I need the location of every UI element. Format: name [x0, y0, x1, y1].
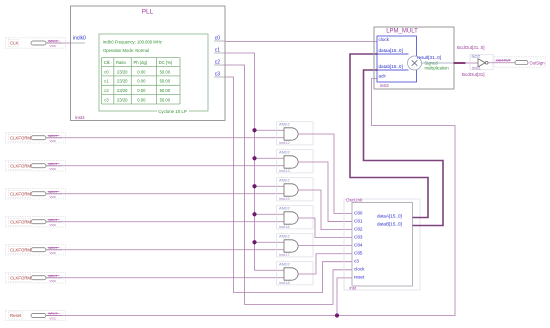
svg-text:VCC: VCC — [50, 139, 57, 143]
svg-text:23/20: 23/20 — [117, 88, 128, 93]
svg-text:c1: c1 — [215, 48, 221, 54]
svg-text:datab[15..0]: datab[15..0] — [379, 64, 403, 69]
wire CLKFORM6 to AND gate inst18 input B — [46, 277, 284, 279]
svg-text:inclk0: inclk0 — [73, 36, 86, 42]
svg-text:CLKFORM1: CLKFORM1 — [10, 135, 34, 140]
svg-text:LPM_MULT: LPM_MULT — [386, 29, 418, 35]
junction dot on net c1 — [252, 240, 256, 244]
wire net c2: PLL c2 to OscUnit clock — [225, 65, 352, 305]
label inst2 — [380, 83, 390, 88]
svg-text:CLKFORM6: CLKFORM6 — [10, 275, 34, 280]
LPM_MULT internal line circle to edge — [422, 62, 455, 64]
wire inst13 out to OscUnit C81 — [298, 162, 352, 222]
wire net Reset: pin to OscUnit reset and LPM_MULT aclr — [46, 79, 455, 316]
svg-text:VCC: VCC — [50, 223, 57, 227]
wire BcdOut[31] tap to NOT input — [465, 62, 478, 64]
svg-text:0.00: 0.00 — [137, 79, 146, 84]
svg-text:23/20: 23/20 — [117, 79, 128, 84]
svg-text:AND2: AND2 — [279, 262, 290, 267]
wire inst18 out to OscUnit C85 — [298, 254, 352, 274]
AND2 gate inst15 — [277, 178, 314, 201]
svg-text:c1: c1 — [104, 79, 109, 84]
input pin CLKFORM5 — [6, 245, 66, 255]
wire c1 branch to AND gate 5 input A — [255, 241, 285, 243]
junction dot on net c1 — [252, 156, 256, 160]
NOT gate inst1 — [470, 54, 493, 71]
input pin CLKFORM3 — [6, 189, 66, 199]
svg-text:c3: c3 — [354, 259, 359, 264]
svg-text:AND2: AND2 — [279, 206, 290, 211]
junction dot on net c1 — [252, 128, 256, 132]
svg-text:0.00: 0.00 — [137, 97, 146, 102]
svg-text:AND2: AND2 — [279, 178, 290, 183]
input pin CLKFORM6 — [6, 273, 66, 283]
input pin Reset — [6, 310, 66, 320]
input pin CLKFORM1 — [6, 133, 66, 143]
PLL parameter table (green) — [99, 34, 208, 114]
wire CLK to PLL inclk0 — [46, 42, 71, 44]
svg-text:inst: inst — [350, 286, 357, 291]
input pin CLKFORM2 — [6, 161, 66, 171]
input pin CLK — [6, 38, 66, 48]
svg-text:inst16: inst16 — [279, 224, 290, 229]
LPM_MULT multiplier circle — [408, 56, 422, 70]
svg-text:CLKFORM3: CLKFORM3 — [10, 191, 34, 196]
svg-text:dataA[15..0]: dataA[15..0] — [377, 214, 402, 219]
svg-text:VCC: VCC — [50, 167, 57, 171]
AND2 gate inst18 — [277, 262, 314, 285]
svg-text:50.00: 50.00 — [160, 97, 171, 102]
junction dot on net c1 — [252, 212, 256, 216]
svg-text:C83: C83 — [354, 234, 363, 239]
svg-text:23/20: 23/20 — [117, 97, 128, 102]
AND2 gate inst13 — [277, 150, 314, 173]
svg-text:PLL: PLL — [142, 9, 154, 16]
svg-text:C80: C80 — [354, 210, 363, 215]
svg-text:CLKFORM5: CLKFORM5 — [10, 247, 34, 252]
svg-text:inst12: inst12 — [279, 140, 290, 145]
svg-text:Ratio: Ratio — [116, 60, 126, 65]
svg-text:23/20: 23/20 — [117, 69, 128, 74]
wire CLKFORM3 to AND gate inst15 input B — [46, 193, 284, 195]
OscUnit block inst — [344, 198, 420, 291]
bus dataA[15..0]: OscUnit to LPM_MULT dataa — [350, 54, 428, 218]
svg-text:VCC: VCC — [50, 251, 57, 255]
wire inst15 out to OscUnit C82 — [298, 190, 352, 230]
svg-text:inst17: inst17 — [279, 252, 290, 257]
AND2 gate inst17 — [277, 234, 314, 257]
svg-text:aclr: aclr — [379, 74, 387, 79]
svg-text:50.00: 50.00 — [160, 88, 171, 93]
svg-text:CLK: CLK — [10, 41, 18, 46]
svg-text:C85: C85 — [354, 251, 363, 256]
svg-text:reset: reset — [354, 275, 365, 280]
net label BcdOut[31..0] — [457, 45, 485, 50]
svg-text:dataa[15..0]: dataa[15..0] — [379, 48, 403, 53]
svg-text:inst4: inst4 — [75, 115, 85, 120]
AND2 gate inst16 — [277, 206, 314, 229]
wire c1 branch to AND gate 4 input A — [255, 213, 285, 215]
svg-text:0.00: 0.00 — [137, 88, 146, 93]
wire NOT output to OutSign pin — [489, 62, 515, 64]
svg-text:DC (%): DC (%) — [159, 60, 173, 65]
svg-text:inst2: inst2 — [380, 83, 390, 88]
wire CLKFORM2 to AND gate inst13 input B — [46, 165, 284, 167]
wire inst16 out to OscUnit C83 — [298, 218, 352, 238]
PLL block U_PLL outline — [71, 6, 226, 121]
svg-text:AND2: AND2 — [279, 234, 290, 239]
svg-text:multiplication: multiplication — [425, 65, 450, 70]
svg-text:c3: c3 — [215, 72, 221, 78]
wire net c1: PLL c1 vertical feed to AND gates — [225, 53, 284, 270]
svg-text:Clk: Clk — [104, 60, 111, 65]
svg-text:inst13: inst13 — [279, 168, 290, 173]
junction dot on net c1 — [252, 184, 256, 188]
svg-text:c0: c0 — [215, 36, 221, 42]
wire CLKFORM1 to AND gate inst12 input B — [46, 137, 284, 139]
wire CLKFORM5 to AND gate inst17 input B — [46, 249, 284, 251]
bus result/BcdOut[31..0] from multiplier — [454, 62, 466, 64]
svg-text:Reset: Reset — [10, 313, 22, 318]
svg-text:50.00: 50.00 — [160, 69, 171, 74]
svg-text:VCC: VCC — [50, 317, 57, 321]
svg-text:result[31..0]: result[31..0] — [417, 55, 441, 60]
svg-text:AND2: AND2 — [279, 122, 290, 127]
svg-text:c0: c0 — [104, 69, 109, 74]
svg-text:BcdOut[31..0]: BcdOut[31..0] — [457, 45, 485, 50]
svg-text:0.00: 0.00 — [137, 69, 146, 74]
svg-text:inclk0 Frequency: 100.000 MHz: inclk0 Frequency: 100.000 MHz — [103, 40, 162, 45]
svg-text:NOT: NOT — [472, 54, 481, 59]
wire inst12 out to OscUnit C80 — [298, 134, 352, 214]
AND2 gate inst12 — [277, 122, 314, 145]
svg-text:clock: clock — [379, 37, 390, 42]
svg-text:C84: C84 — [354, 243, 363, 248]
svg-text:C81: C81 — [354, 218, 363, 223]
svg-text:c2: c2 — [104, 88, 109, 93]
svg-text:50.00: 50.00 — [160, 79, 171, 84]
wire CLKFORM4 to AND gate inst16 input B — [46, 221, 284, 223]
wire c1 branch to AND gate 1 input A — [255, 129, 285, 131]
svg-text:VCC: VCC — [50, 279, 57, 283]
input pin CLKFORM4 — [6, 217, 66, 227]
junction dot on Reset net — [335, 313, 339, 317]
svg-text:inst15: inst15 — [279, 196, 290, 201]
svg-text:c3: c3 — [104, 97, 109, 102]
output pin OutSign — [495, 57, 546, 67]
svg-text:OutSign: OutSign — [530, 60, 546, 65]
svg-text:inst18: inst18 — [279, 280, 290, 285]
svg-text:clock: clock — [354, 267, 365, 272]
svg-text:c2: c2 — [215, 60, 221, 66]
svg-text:CLKFORM4: CLKFORM4 — [10, 219, 34, 224]
svg-text:VCC: VCC — [50, 195, 57, 199]
wire inst17 out to OscUnit C84 — [298, 245, 352, 247]
svg-text:dataB[15..0]: dataB[15..0] — [377, 222, 402, 227]
wire c1 branch to AND gate 3 input A — [255, 185, 285, 187]
svg-text:CLKFORM2: CLKFORM2 — [10, 163, 34, 168]
label result[31..0] — [417, 55, 441, 60]
svg-text:OscUnit: OscUnit — [346, 198, 363, 203]
svg-text:AND2: AND2 — [279, 150, 290, 155]
svg-text:VCC: VCC — [50, 44, 57, 48]
label Signed multiplication — [425, 61, 450, 71]
svg-text:Ph (dg): Ph (dg) — [134, 60, 148, 65]
LPM_MULT block inst2 outline — [374, 27, 454, 89]
svg-text:C82: C82 — [354, 226, 363, 231]
svg-text:Operation Mode: Normal: Operation Mode: Normal — [103, 48, 149, 53]
svg-text:Cyclone 10 LP: Cyclone 10 LP — [158, 109, 187, 114]
wire net c0: PLL c0 to LPM_MULT clock — [225, 41, 377, 43]
wire c1 branch to AND gate 2 input A — [255, 157, 285, 159]
bus dataB[15..0]: OscUnit to LPM_MULT datab — [364, 70, 444, 226]
svg-text:BcdOut[31]: BcdOut[31] — [462, 72, 485, 77]
LPM_MULT symbol body — [377, 36, 417, 82]
wire Reset branch to OscUnit reset — [337, 278, 352, 316]
svg-text:inst1: inst1 — [472, 65, 482, 70]
net label BcdOut[31] — [462, 72, 485, 77]
wire net c3: PLL c3 to OscUnit c3 — [225, 77, 352, 293]
